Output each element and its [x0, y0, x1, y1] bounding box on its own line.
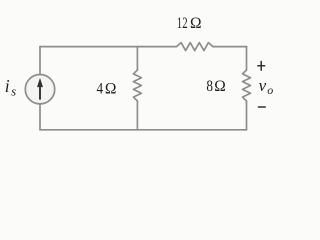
- wire left upper: [39, 47, 41, 75]
- resistor R 4ohm: [133, 70, 141, 101]
- svg-text:8Ω: 8Ω: [206, 78, 225, 95]
- wire bottom: [40, 129, 247, 131]
- svg-text:is: is: [5, 76, 16, 98]
- svg-text:4Ω: 4Ω: [97, 80, 117, 97]
- svg-text:vo: vo: [259, 76, 274, 97]
- current source circle: [25, 75, 54, 104]
- resistor R 8ohm: [243, 70, 251, 101]
- wire right lower: [246, 101, 248, 130]
- wire middle upper: [136, 47, 138, 70]
- label minus: [258, 106, 266, 108]
- resistor R 12ohm: [177, 43, 214, 51]
- wire left lower: [39, 104, 41, 130]
- svg-text:12Ω: 12Ω: [177, 15, 202, 32]
- wire top: [40, 46, 247, 48]
- wire right upper: [246, 47, 248, 70]
- current source arrow: [37, 78, 43, 100]
- wire middle lower: [136, 101, 138, 130]
- label plus: [257, 61, 265, 71]
